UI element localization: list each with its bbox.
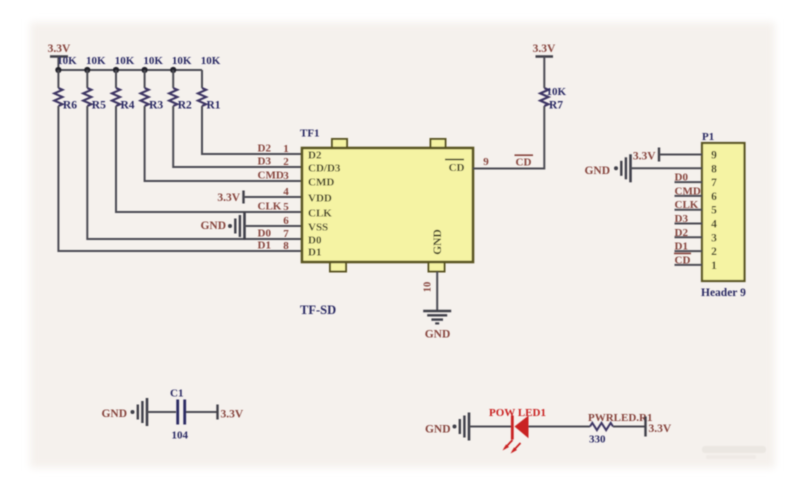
wire stub P1 pin 1 xyxy=(675,264,703,266)
svg-text:D1: D1 xyxy=(258,240,271,252)
svg-text:2: 2 xyxy=(283,156,289,168)
ground GND at TF1 VSS pin 6 xyxy=(200,212,302,240)
resistor R5 10K xyxy=(83,55,106,112)
power port 3.3V above R7 xyxy=(533,43,556,88)
resistor R3 10K xyxy=(141,55,164,112)
svg-text:R1: R1 xyxy=(207,100,221,112)
svg-text:GND: GND xyxy=(425,329,451,341)
resistor R1 10K xyxy=(198,55,221,112)
svg-text:CMD: CMD xyxy=(675,185,701,197)
svg-text:1: 1 xyxy=(283,143,289,155)
net label CD (P1 pin 1, active low) xyxy=(674,253,691,266)
wire TF1 pin 10 to ground xyxy=(436,272,438,312)
svg-text:1: 1 xyxy=(711,260,717,272)
svg-text:R6: R6 xyxy=(63,100,77,112)
svg-text:GND: GND xyxy=(432,229,444,255)
net label CD (active low) xyxy=(515,155,534,168)
ground GND at C1 xyxy=(101,398,147,426)
ground GND at P1 pin 8 xyxy=(584,154,702,182)
wire stub P1 pin 2 xyxy=(675,250,703,252)
ground GND at LED1 xyxy=(425,413,469,441)
svg-text:9: 9 xyxy=(711,150,717,162)
svg-text:3.3V: 3.3V xyxy=(633,151,656,163)
svg-text:10K: 10K xyxy=(143,55,163,67)
svg-text:D1: D1 xyxy=(308,247,321,259)
wire R6 to TF1 pin 8 xyxy=(58,106,302,251)
power port 3.3V (pull-up bus) xyxy=(48,43,71,70)
wire 3.3V pull-up bus xyxy=(58,69,202,71)
power port 3.3V at P1 pin 9 xyxy=(633,148,702,163)
svg-text:D3: D3 xyxy=(258,156,272,168)
svg-text:CD/D3: CD/D3 xyxy=(308,163,341,175)
power port 3.3V at TF1 VDD pin 4 xyxy=(217,191,302,205)
svg-text:PWRLED.R1: PWRLED.R1 xyxy=(588,412,652,424)
svg-text:3.3V: 3.3V xyxy=(48,43,71,55)
junction R2/bus xyxy=(170,67,176,73)
svg-text:R3: R3 xyxy=(149,100,163,112)
TF1 pin name CD (active low) xyxy=(445,160,465,175)
capacitor C1 104 xyxy=(170,388,189,442)
svg-text:CMD: CMD xyxy=(308,177,334,189)
wire GND to LED1 cathode xyxy=(469,426,511,428)
svg-text:TF-SD: TF-SD xyxy=(300,303,336,317)
svg-text:R7: R7 xyxy=(549,100,563,112)
resistor R7 10K xyxy=(540,86,566,112)
wire stub P1 pin 7 xyxy=(675,181,703,183)
svg-text:Header 9: Header 9 xyxy=(701,287,746,299)
svg-text:D1: D1 xyxy=(675,241,688,253)
svg-text:10K: 10K xyxy=(115,55,135,67)
junction R3/bus xyxy=(142,67,148,73)
svg-text:D2: D2 xyxy=(308,150,322,162)
resistor R4 10K xyxy=(112,55,135,112)
svg-text:3.3V: 3.3V xyxy=(221,409,244,421)
svg-text:104: 104 xyxy=(172,430,189,442)
svg-text:330: 330 xyxy=(589,434,606,446)
svg-text:D3: D3 xyxy=(675,213,689,225)
wire stub P1 pin 3 xyxy=(675,236,703,238)
svg-text:5: 5 xyxy=(283,201,289,213)
wire resistor to 3.3V xyxy=(613,426,646,428)
power port 3.3V at PWRLED.R1 xyxy=(646,417,672,437)
resistor R6 10K xyxy=(54,55,77,112)
svg-text:TF1: TF1 xyxy=(300,128,320,140)
svg-text:3: 3 xyxy=(283,170,289,182)
svg-text:7: 7 xyxy=(283,228,289,240)
svg-text:7: 7 xyxy=(711,177,717,189)
svg-text:10K: 10K xyxy=(547,86,567,98)
svg-text:5: 5 xyxy=(711,205,717,217)
svg-text:6: 6 xyxy=(711,191,717,203)
svg-text:8: 8 xyxy=(283,240,289,252)
wire C1 to 3.3V xyxy=(186,411,218,413)
svg-text:VSS: VSS xyxy=(308,222,328,234)
svg-text:D0: D0 xyxy=(675,172,689,184)
svg-text:GND: GND xyxy=(584,165,610,177)
svg-text:2: 2 xyxy=(711,246,717,258)
svg-text:CMD: CMD xyxy=(258,170,284,182)
svg-text:CD: CD xyxy=(516,157,532,169)
svg-text:GND: GND xyxy=(200,220,226,232)
ground GND below TF1 pin 10 xyxy=(423,311,451,341)
svg-text:CLK: CLK xyxy=(308,208,332,220)
LED POW LED1 xyxy=(503,416,529,454)
svg-text:10K: 10K xyxy=(86,55,106,67)
junction R5/bus xyxy=(84,67,90,73)
svg-text:R5: R5 xyxy=(92,100,106,112)
svg-text:POW LED1: POW LED1 xyxy=(489,407,546,419)
wire LED1 anode to resistor xyxy=(529,426,591,428)
connector P1 body xyxy=(702,143,745,281)
wire TF1 pin 9 to R7 (net CD) xyxy=(473,106,544,169)
svg-text:CLK: CLK xyxy=(675,199,699,211)
svg-text:10: 10 xyxy=(423,282,434,293)
power port 3.3V at C1 xyxy=(218,405,244,421)
svg-text:GND: GND xyxy=(101,408,127,420)
wire stub P1 pin 4 xyxy=(675,223,703,225)
svg-text:3.3V: 3.3V xyxy=(533,43,556,55)
svg-text:8: 8 xyxy=(711,163,717,175)
svg-text:3: 3 xyxy=(711,232,717,244)
svg-text:GND: GND xyxy=(425,424,451,436)
svg-text:9: 9 xyxy=(483,156,489,168)
wire R3 to TF1 pin 3 xyxy=(145,106,302,181)
junction R6/bus xyxy=(55,67,61,73)
svg-text:CD: CD xyxy=(675,254,691,266)
wire R5 to TF1 pin 7 xyxy=(87,106,302,239)
wire GND to C1 xyxy=(147,411,176,413)
wire stub P1 pin 5 xyxy=(675,209,703,211)
svg-text:10K: 10K xyxy=(172,55,192,67)
resistor R2 10K xyxy=(169,55,192,112)
junction R4/bus xyxy=(113,67,119,73)
svg-text:R2: R2 xyxy=(178,100,192,112)
svg-text:10K: 10K xyxy=(57,55,77,67)
svg-text:CD: CD xyxy=(449,162,465,174)
svg-text:D2: D2 xyxy=(675,227,689,239)
svg-text:P1: P1 xyxy=(702,131,714,143)
IC TF1 (TF-SD socket) body xyxy=(302,139,473,272)
wire R2 to TF1 pin 2 xyxy=(173,106,302,167)
svg-text:D0: D0 xyxy=(308,235,322,247)
wire stub P1 pin 6 xyxy=(675,195,703,197)
svg-text:VDD: VDD xyxy=(308,193,332,205)
svg-text:C1: C1 xyxy=(170,388,183,400)
wire R1 to TF1 pin 1 xyxy=(202,106,302,154)
svg-text:4: 4 xyxy=(711,219,717,231)
svg-text:R4: R4 xyxy=(121,100,135,112)
wire R4 to TF1 pin 5 xyxy=(116,106,302,212)
svg-text:3.3V: 3.3V xyxy=(217,192,240,204)
svg-text:3.3V: 3.3V xyxy=(649,423,672,435)
svg-text:CLK: CLK xyxy=(258,201,282,213)
svg-text:D0: D0 xyxy=(258,228,272,240)
svg-text:10K: 10K xyxy=(201,55,221,67)
svg-text:D2: D2 xyxy=(258,143,272,155)
resistor PWRLED.R1 330 xyxy=(588,412,652,446)
